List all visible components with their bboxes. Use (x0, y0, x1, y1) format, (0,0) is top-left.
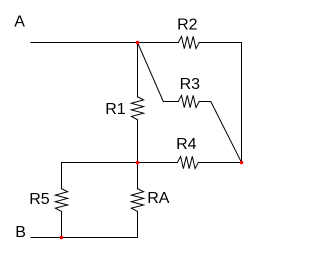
svg-text:A: A (14, 14, 25, 31)
svg-text:R2: R2 (177, 16, 198, 33)
svg-text:R1: R1 (105, 101, 126, 118)
svg-text:R4: R4 (176, 136, 197, 153)
svg-text:R3: R3 (180, 76, 201, 93)
svg-text:R5: R5 (29, 191, 50, 208)
svg-text:RA: RA (147, 190, 170, 207)
svg-text:B: B (15, 224, 26, 241)
